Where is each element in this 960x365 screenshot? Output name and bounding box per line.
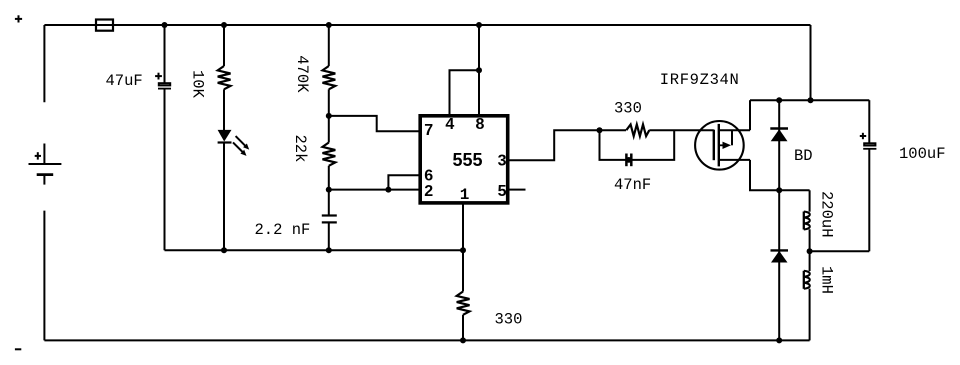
op-amp U1 555 box (420, 116, 508, 203)
node BD top (776, 97, 782, 103)
wire from top rail down (810, 25, 812, 100)
wire pin4 (450, 70, 480, 114)
node drain join (776, 187, 782, 193)
wire left rail upper (43, 25, 45, 102)
svg-text:7: 7 (424, 122, 433, 139)
wire top rail (44, 24, 810, 26)
node dots (162, 22, 814, 343)
wire 22k to node (328, 166, 330, 216)
resistor 330 gate (626, 125, 649, 137)
node diode2 bottom (776, 337, 782, 343)
svg-text:555: 555 (453, 150, 483, 170)
wire pin3 connection (510, 130, 627, 160)
node 2.2nF bottom (326, 247, 332, 253)
svg-text:1mH: 1mH (818, 266, 836, 294)
resistor 10K (218, 66, 231, 89)
node 22k-cap (326, 187, 332, 193)
svg-text:47nF: 47nF (614, 176, 651, 194)
diode D2 (771, 249, 789, 251)
svg-text:47uF: 47uF (106, 72, 143, 90)
wire 330 to bottom rail (462, 315, 464, 341)
plus sign 47uF (155, 73, 162, 80)
battery long plate (29, 163, 62, 165)
node 470K-22k (326, 113, 332, 119)
wire 1mH bottom (809, 289, 811, 341)
transistor bulk connector (731, 130, 733, 145)
wire LED to mid rail (223, 143, 225, 251)
battery negative stub (43, 175, 45, 185)
wire 330 to gate (649, 129, 714, 131)
svg-text:330: 330 (614, 100, 642, 118)
transistor source stub (719, 129, 750, 131)
svg-text:470K: 470K (293, 55, 311, 93)
wire 10K column top (223, 25, 225, 66)
wire pin2 connection (329, 189, 420, 191)
wire drain down (750, 160, 810, 190)
svg-text:IRF9Z34N: IRF9Z34N (660, 71, 739, 89)
svg-text:330: 330 (495, 311, 523, 329)
minus sign supply (15, 348, 21, 350)
svg-text:6: 6 (424, 167, 433, 184)
wire 220uH top (809, 190, 811, 211)
wire 1mH top (809, 251, 811, 271)
capacitor C5 100uF plate (864, 143, 875, 145)
wire BD diode column (778, 100, 780, 190)
fuse F1 (96, 20, 113, 31)
wire diode2 lower column (778, 190, 780, 340)
node 47nF center (626, 157, 632, 163)
resistor 22k (323, 143, 336, 166)
plus sign supply (15, 15, 22, 22)
wire 100uF top (868, 100, 870, 142)
wire 10K to LED (223, 89, 225, 130)
wire left rail lower (43, 211, 45, 341)
node 47uF top (162, 22, 168, 28)
wire 47uF column bottom (164, 89, 166, 251)
battery positive stub (43, 144, 45, 165)
LED arrow 2 (233, 142, 243, 152)
transistor Q1 IRF9Z34N circle (695, 121, 744, 170)
svg-text:4: 4 (445, 116, 454, 133)
LED arrow 1 (236, 136, 246, 146)
svg-text:5: 5 (498, 183, 507, 200)
node gate branch (597, 127, 603, 133)
node 470K top (326, 22, 332, 28)
svg-text:8: 8 (476, 116, 485, 133)
diode BD (770, 127, 788, 129)
inductor 220uH (803, 212, 805, 230)
battery short plate (37, 173, 54, 176)
svg-text:1: 1 (460, 186, 470, 204)
node inductor join (807, 248, 813, 254)
plus sign 100uF (860, 133, 866, 139)
wire mid horizontal to pin1 (165, 249, 463, 251)
wire source up (749, 100, 751, 130)
node pin6-pin2 (385, 187, 391, 193)
wire pin5 stub (510, 189, 526, 191)
transistor channel bar (718, 124, 720, 166)
node pin1 mid (460, 247, 466, 253)
resistor 330 bottom (457, 292, 470, 315)
node pin4-pin8 (476, 67, 482, 73)
svg-text:220uH: 220uH (818, 191, 836, 238)
node 10K bottom (221, 247, 227, 253)
capacitor 47nF plates (625, 154, 628, 167)
resistor 470K (323, 66, 336, 89)
svg-text:2: 2 (424, 183, 433, 200)
wire pin7 connection (329, 116, 420, 131)
wire pin8 (478, 25, 480, 115)
node 10K top (221, 22, 227, 28)
wire 470K to node (328, 89, 330, 142)
wire 220uH bottom (809, 229, 811, 251)
svg-text:3: 3 (498, 152, 507, 169)
LED D1 (218, 130, 232, 142)
wire pin6 connection (388, 175, 420, 189)
wire 100uF bottom (868, 149, 870, 251)
svg-text:100uF: 100uF (899, 145, 946, 163)
wire 47nF branch (600, 130, 675, 160)
capacitor 2.2nF plates (322, 214, 337, 216)
node pin8 top (476, 22, 482, 28)
transistor gate bar (713, 130, 715, 161)
wire pin1 (462, 205, 464, 292)
plus sign battery (35, 152, 41, 159)
svg-text:2.2 nF: 2.2 nF (255, 221, 311, 239)
wire 470K column top (328, 25, 330, 66)
wire bottom rail (44, 339, 809, 341)
inductor 1mH (803, 271, 805, 289)
svg-text:BD: BD (794, 147, 813, 165)
node top rail join (808, 97, 814, 103)
transistor arrow (719, 144, 724, 146)
node 330 bottom (460, 337, 466, 343)
wire 47uF column top (164, 25, 166, 83)
capacitor C1 47uF plate (159, 83, 170, 85)
transistor drain stub (719, 159, 750, 161)
wire top node rail (750, 99, 869, 101)
svg-text:22k: 22k (291, 135, 309, 163)
wire 2.2nF bottom (328, 222, 330, 250)
wire mid right horizontal (810, 250, 870, 252)
svg-text:10K: 10K (189, 70, 207, 99)
